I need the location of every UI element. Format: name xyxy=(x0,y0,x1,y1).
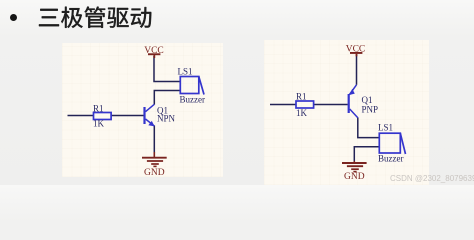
svg-text:VCC: VCC xyxy=(144,46,164,56)
svg-text:GND: GND xyxy=(344,172,365,182)
svg-text:GND: GND xyxy=(144,168,165,177)
svg-text:1K: 1K xyxy=(93,119,105,129)
svg-text:Q1: Q1 xyxy=(362,95,373,105)
svg-text:LS1: LS1 xyxy=(378,123,393,133)
svg-text:1K: 1K xyxy=(296,108,308,118)
svg-text:Buzzer: Buzzer xyxy=(180,95,205,105)
svg-text:Buzzer: Buzzer xyxy=(378,154,403,164)
svg-text:VCC: VCC xyxy=(346,44,366,54)
svg-text:PNP: PNP xyxy=(362,105,379,115)
svg-text:LS1: LS1 xyxy=(178,67,193,77)
svg-text:R1: R1 xyxy=(93,104,104,114)
svg-text:NPN: NPN xyxy=(157,114,176,124)
svg-text:R1: R1 xyxy=(296,92,307,102)
